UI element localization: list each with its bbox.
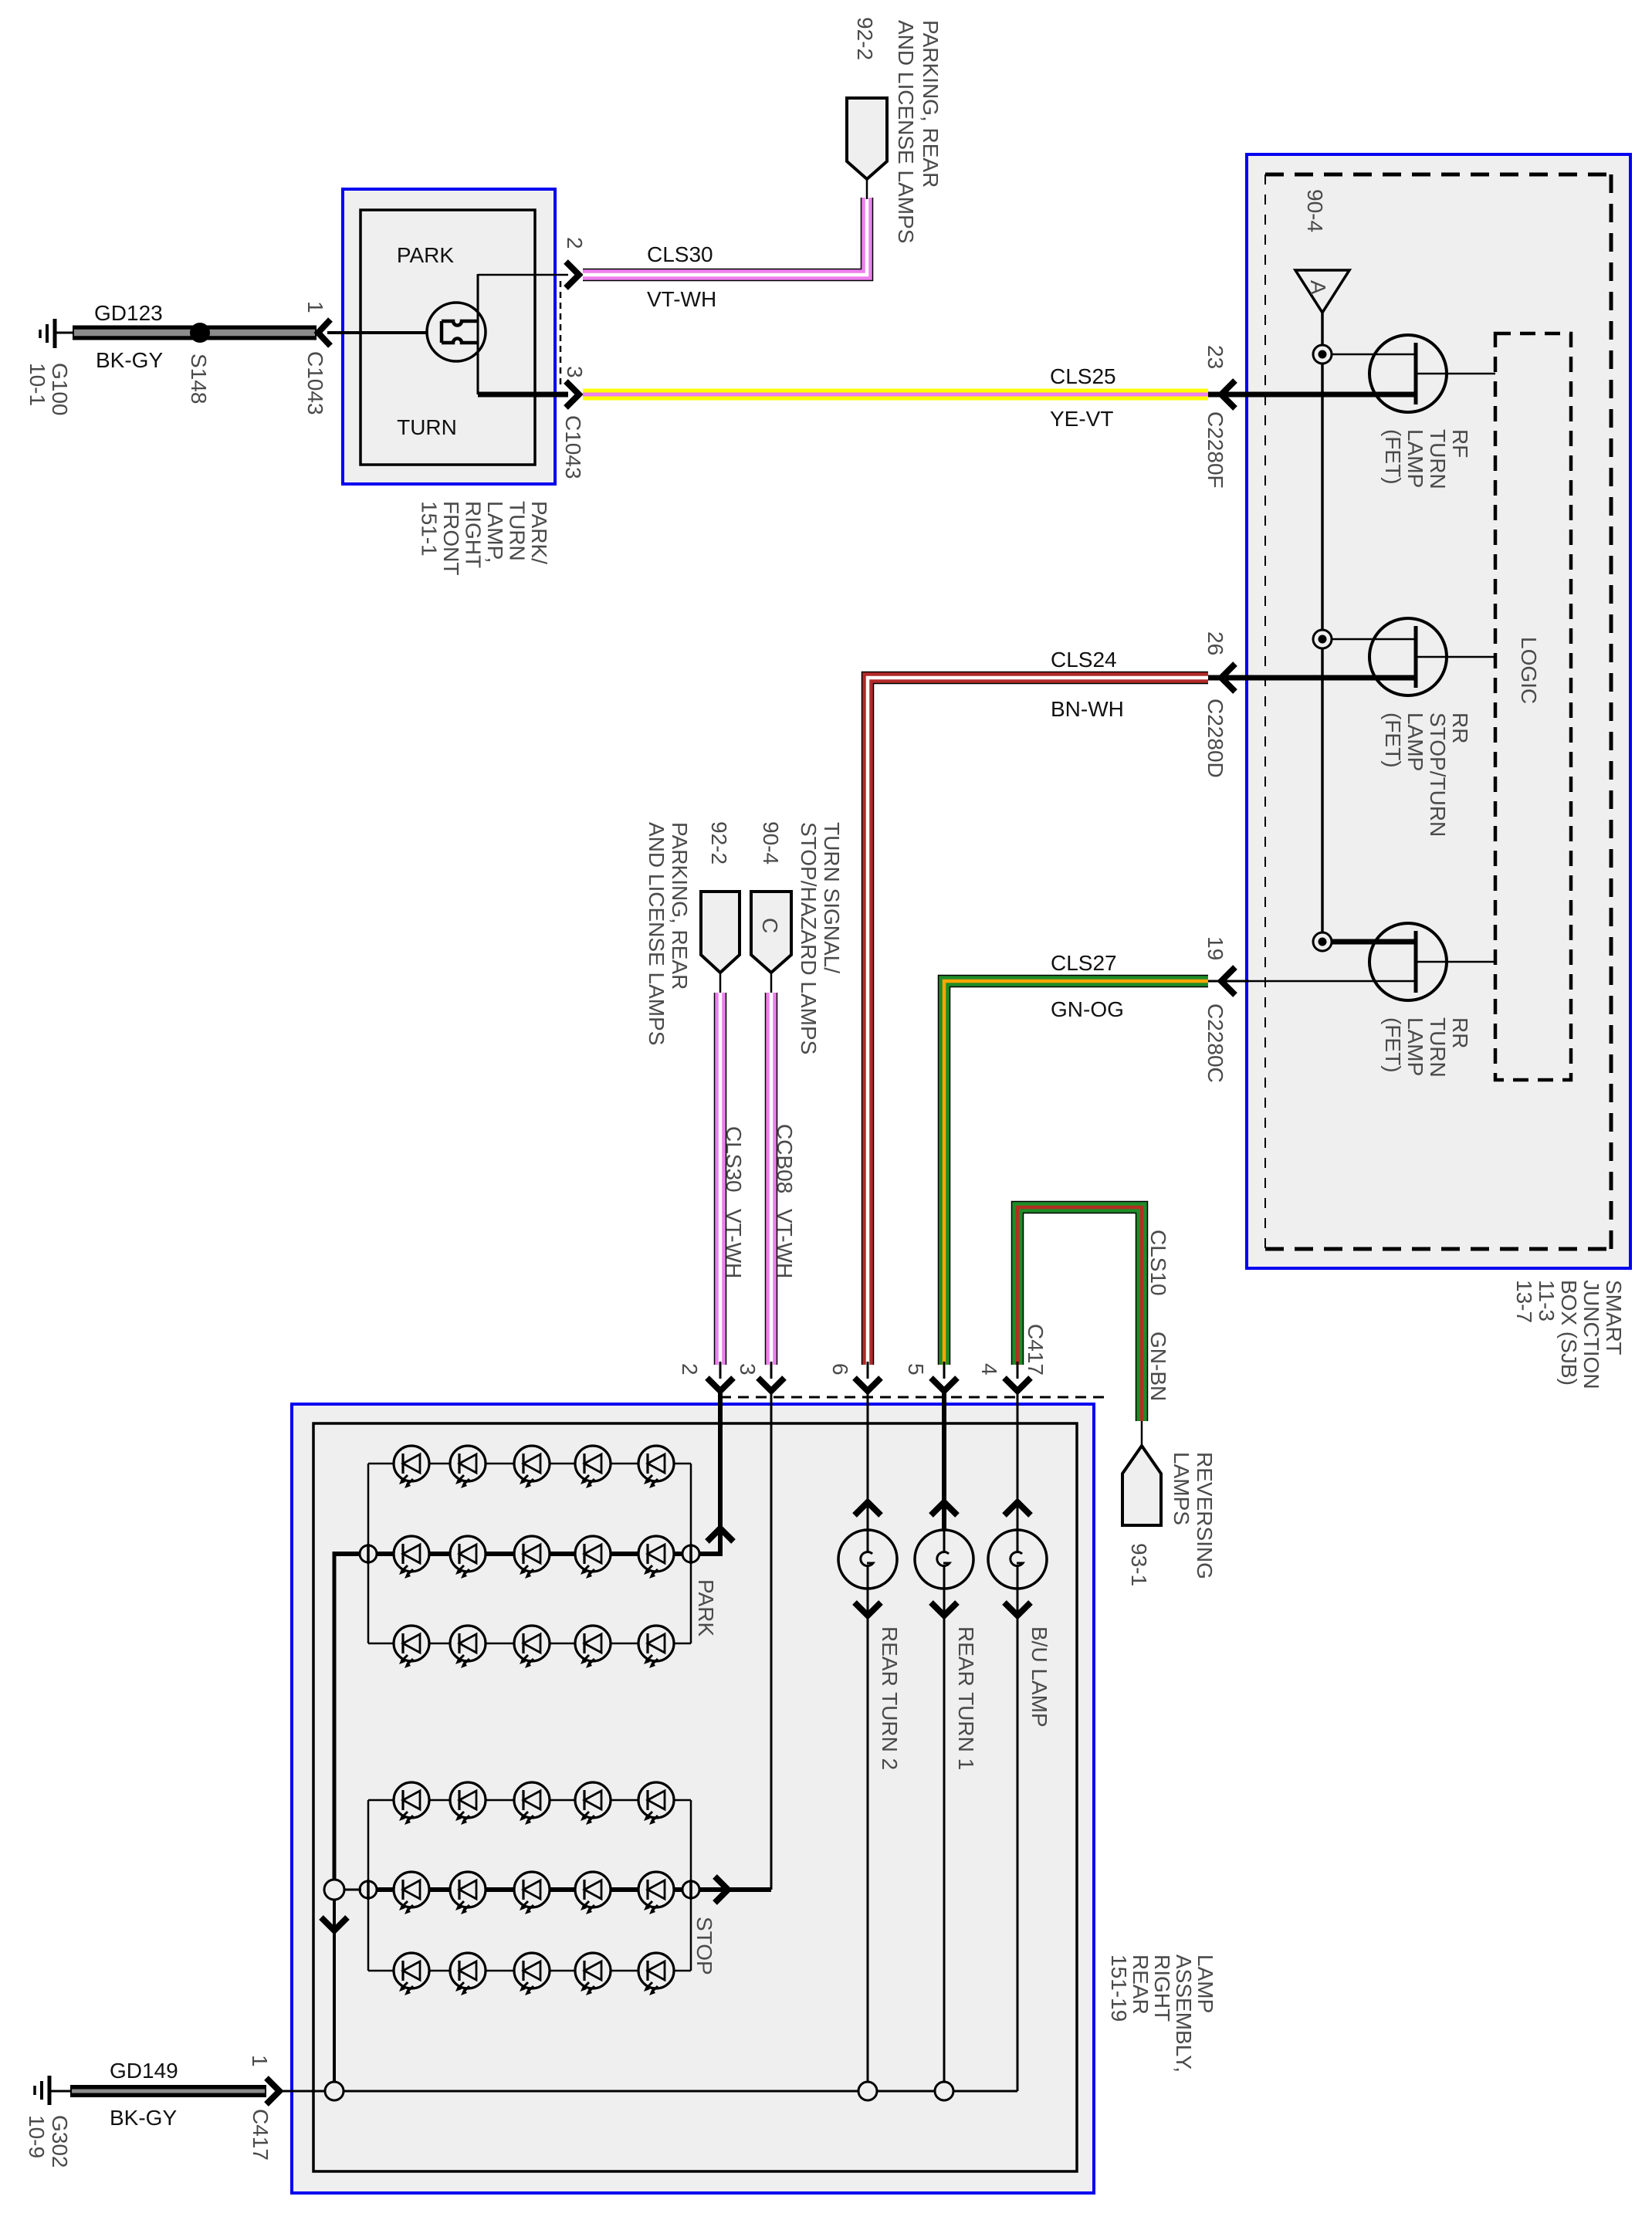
park/turn lamp right front - blue box bbox=[343, 189, 555, 484]
connector arrow pin 5 rear (C417) bbox=[931, 1378, 957, 1391]
node circle on left bus (STOP row) bbox=[324, 1880, 344, 1900]
wire bulb to ground REAR TURN 2 bbox=[867, 1587, 869, 2091]
wire bulb to pin 3 (thick) bbox=[478, 392, 568, 398]
PARK LED D22 bbox=[450, 1536, 486, 1579]
svg-text:C2280C: C2280C bbox=[1203, 1003, 1227, 1083]
wire stub pin 2 rear bbox=[719, 1362, 722, 1379]
wire CLS30 VT-WH (to pin 2 rear) bbox=[714, 993, 727, 1365]
svg-text:92-2: 92-2 bbox=[853, 17, 877, 60]
svg-text:CLS30: CLS30 bbox=[647, 242, 713, 266]
STOP terminal circle-plus left bbox=[360, 1880, 377, 1900]
svg-text:CLS30: CLS30 bbox=[722, 1126, 746, 1193]
FET 2 circle bbox=[1369, 618, 1447, 695]
PARK LED row 3 wire bbox=[368, 1643, 691, 1645]
STOP LED D23 bbox=[514, 1872, 550, 1914]
STOP LED D21 bbox=[394, 1872, 429, 1914]
wire pin to bulb REAR TURN 2 bbox=[867, 1392, 869, 1531]
svg-text:GN-OG: GN-OG bbox=[1051, 997, 1124, 1021]
svg-text:PARK/TURNLAMP,RIGHTFRONT151-1: PARK/TURNLAMP,RIGHTFRONT151-1 bbox=[418, 501, 552, 575]
PARK feed wire left corner bbox=[334, 1552, 360, 1882]
FET 1 channel bar bbox=[1414, 343, 1418, 404]
FET 1 gate wire from dot bbox=[1332, 354, 1416, 356]
svg-text:C2280F: C2280F bbox=[1203, 411, 1227, 489]
STOP LED D22 bbox=[450, 1872, 486, 1914]
FET 3 channel bar bbox=[1414, 931, 1418, 993]
wire CLS25 into SJB (black) bbox=[1208, 392, 1249, 398]
PARK LED array left bracket wire bbox=[367, 1464, 370, 1643]
PARK LED row 1 wire bbox=[368, 1463, 691, 1465]
svg-text:26: 26 bbox=[1203, 631, 1227, 655]
wire CLS24 BN-WH bbox=[868, 678, 1208, 1365]
STOP LED D12 bbox=[450, 1782, 486, 1825]
FET 3 circle bbox=[1369, 923, 1447, 1000]
svg-text:C1043: C1043 bbox=[303, 351, 327, 415]
junction dot 2 on bus bbox=[1313, 630, 1332, 648]
svg-text:VT-WH: VT-WH bbox=[722, 1209, 746, 1278]
connector arrow C1043 pin 1 bbox=[318, 320, 330, 346]
svg-text:CLS10: CLS10 bbox=[1146, 1230, 1170, 1296]
PARK LED D23 bbox=[514, 1536, 550, 1579]
SJB outer dashed border bottom bbox=[1265, 1247, 1611, 1251]
wire stub pin 4 rear bbox=[1017, 1362, 1019, 1379]
FET 3 drain wire to LOGIC bbox=[1416, 961, 1495, 963]
PARK LED D13 bbox=[514, 1446, 550, 1488]
svg-text:92-2: 92-2 bbox=[707, 821, 731, 865]
STOP feed right-arrow bbox=[715, 1877, 728, 1903]
svg-text:4: 4 bbox=[977, 1363, 1001, 1376]
svg-text:23: 23 bbox=[1203, 345, 1227, 369]
svg-text:SMARTJUNCTIONBOX (SJB)11-313-7: SMARTJUNCTIONBOX (SJB)11-313-7 bbox=[1512, 1280, 1626, 1389]
svg-text:5: 5 bbox=[904, 1363, 928, 1376]
STOP LED D24 bbox=[575, 1872, 611, 1914]
svg-text:YE-VT: YE-VT bbox=[1050, 407, 1113, 431]
connector arrow pin 2 rear (C417) bbox=[707, 1378, 733, 1391]
svg-text:CLS25: CLS25 bbox=[1050, 364, 1116, 388]
PARK LED D25 bbox=[638, 1536, 674, 1579]
PARK LED D11 bbox=[394, 1446, 429, 1488]
svg-text:C: C bbox=[758, 918, 782, 933]
svg-text:G30210-9: G30210-9 bbox=[25, 2115, 72, 2168]
STOP feed wire right to pin3 bbox=[699, 1887, 771, 1892]
svg-text:REVERSINGLAMPS: REVERSINGLAMPS bbox=[1170, 1452, 1217, 1579]
svg-text:VT-WH: VT-WH bbox=[647, 287, 716, 311]
PARK LED D15 bbox=[638, 1446, 674, 1488]
connector arrow C2280F pin 23 bbox=[1221, 381, 1235, 408]
STOP LED D11 bbox=[394, 1782, 429, 1825]
LOGIC dashed box bbox=[1495, 333, 1571, 1080]
FET 3 gate wire from dot bbox=[1332, 939, 1416, 945]
svg-text:C417: C417 bbox=[249, 2109, 273, 2161]
wire CCB08 VT-WH (to pin 3 rear) bbox=[765, 993, 778, 1365]
left bus wire below node bbox=[333, 1900, 336, 2082]
PARK LED row 2 wire (thick) bbox=[368, 1552, 691, 1556]
svg-text:CCB08: CCB08 bbox=[773, 1124, 797, 1193]
svg-text:6: 6 bbox=[828, 1363, 852, 1376]
svg-text:VT-WH: VT-WH bbox=[773, 1209, 797, 1278]
wire stub pin 6 rear bbox=[867, 1362, 869, 1379]
FET 1 drain wire to LOGIC bbox=[1416, 373, 1495, 375]
connector pentagon reversing lamps bbox=[1122, 1446, 1161, 1525]
connector arrow C417 pin 1 bbox=[266, 2078, 279, 2104]
bulb up-arrow B/U LAMP bbox=[1004, 1502, 1031, 1515]
STOP LED row 1 wire bbox=[368, 1799, 691, 1802]
PARK terminal circle-plus left bbox=[360, 1544, 377, 1564]
PARK LED D35 bbox=[638, 1626, 674, 1668]
FET1 source wire (pin 23) bbox=[1227, 392, 1416, 398]
wire stub to pentagon 92-2 bbox=[866, 178, 868, 199]
svg-text:2: 2 bbox=[563, 237, 587, 249]
FET3 source wire (pin 19) bbox=[1227, 980, 1416, 983]
SJB outer dashed border top bbox=[1265, 173, 1611, 177]
ground bus wire (lamp assembly) bbox=[278, 2090, 1017, 2093]
svg-text:GD123: GD123 bbox=[94, 301, 163, 325]
svg-text:CLS27: CLS27 bbox=[1051, 951, 1117, 975]
ground node circle (left bus) bbox=[325, 2082, 344, 2100]
svg-text:S148: S148 bbox=[187, 354, 211, 404]
bulb up-arrow REAR TURN 1 bbox=[931, 1502, 957, 1515]
svg-text:BK-GY: BK-GY bbox=[110, 2106, 177, 2130]
STOP LED array left bracket wire bbox=[367, 1800, 370, 1971]
STOP LED D34 bbox=[575, 1953, 611, 1995]
wire GD149 BK-GY bbox=[70, 2085, 266, 2097]
wire pin to bulb B/U LAMP bbox=[1017, 1392, 1019, 1531]
svg-text:BN-WH: BN-WH bbox=[1051, 697, 1124, 721]
FET 2 drain wire to LOGIC bbox=[1416, 656, 1495, 658]
STOP LED D14 bbox=[575, 1782, 611, 1825]
svg-text:BK-GY: BK-GY bbox=[96, 348, 163, 372]
svg-text:TURN: TURN bbox=[397, 415, 457, 439]
wire pin3 vertical (CCB08 feed) bbox=[770, 1392, 773, 1890]
park/turn lamp inner box bbox=[361, 210, 535, 465]
STOP terminal circle-plus right bbox=[682, 1880, 699, 1900]
svg-text:CLS24: CLS24 bbox=[1051, 648, 1117, 672]
splice S148 bbox=[190, 323, 210, 343]
bulb REAR TURN 2 bbox=[838, 1530, 897, 1589]
STOP LED row 3 wire bbox=[368, 1970, 691, 1972]
wire node to STOP terminal bbox=[344, 1889, 361, 1891]
wire CLS24 into SJB (black) bbox=[1208, 675, 1249, 681]
wire bulb to ground REAR TURN 1 bbox=[943, 1587, 946, 2091]
bulb B/U LAMP bbox=[988, 1530, 1047, 1589]
connector arrow pin 3 rear (C417) bbox=[758, 1378, 784, 1391]
svg-text:1: 1 bbox=[248, 2055, 272, 2067]
wire stub to reversing lamps pentagon bbox=[1141, 1421, 1143, 1447]
triangle A connector bbox=[1295, 270, 1349, 313]
STOP LED array right bracket wire bbox=[690, 1800, 692, 1971]
connector arrow pin 2 bbox=[566, 262, 579, 288]
STOP LED D32 bbox=[450, 1953, 486, 1995]
STOP LED D15 bbox=[638, 1782, 674, 1825]
svg-text:LOGIC: LOGIC bbox=[1517, 637, 1541, 704]
FET2 source wire (pin 26) bbox=[1227, 675, 1416, 681]
PARK LED D14 bbox=[575, 1446, 611, 1488]
wire CLS30 VT-WH (front) bbox=[583, 198, 867, 275]
junction dot 1 on bus bbox=[1313, 345, 1332, 364]
wire bulb to ground B/U LAMP bbox=[1017, 1587, 1019, 2091]
svg-text:C1043: C1043 bbox=[561, 415, 585, 479]
STOP LED D25 bbox=[638, 1872, 674, 1914]
wire pin1 to bulb bbox=[327, 331, 440, 334]
svg-text:19: 19 bbox=[1203, 936, 1227, 960]
connector pentagon 92-2 (parking rear and license lamps) bbox=[847, 98, 887, 179]
PARK LED array right bracket wire bbox=[690, 1464, 692, 1643]
PARK LED D21 bbox=[394, 1536, 429, 1579]
svg-text:C2280D: C2280D bbox=[1203, 699, 1227, 778]
connector pentagon 90-4 C (mid) bbox=[751, 892, 791, 973]
SJB outer dashed border left (thin) bbox=[1264, 174, 1266, 1249]
svg-text:GD149: GD149 bbox=[110, 2059, 178, 2083]
svg-text:LAMPASSEMBLY,RIGHTREAR151-19: LAMPASSEMBLY,RIGHTREAR151-19 bbox=[1107, 1954, 1217, 2073]
connector C417 dashed line bbox=[720, 1396, 1104, 1399]
svg-text:TURN SIGNAL/STOP/HAZARD LAMPS: TURN SIGNAL/STOP/HAZARD LAMPS bbox=[797, 822, 844, 1054]
svg-text:PARKING, REARAND LICENSE LAMPS: PARKING, REARAND LICENSE LAMPS bbox=[645, 822, 692, 1045]
STOP LED D13 bbox=[514, 1782, 550, 1825]
bulb internal bus wire bbox=[477, 274, 479, 394]
junction dot 3 on bus bbox=[1313, 932, 1332, 951]
connector C1043 dashed line bbox=[560, 281, 562, 386]
bulb down-arrow REAR TURN 1 bbox=[931, 1602, 957, 1616]
svg-text:PARK: PARK bbox=[397, 243, 454, 267]
ground node circle (rear turn 1) bbox=[935, 2082, 953, 2100]
FET 2 channel bar bbox=[1414, 626, 1418, 688]
STOP LED row 2 wire (thick) bbox=[368, 1887, 691, 1892]
svg-text:C417: C417 bbox=[1024, 1324, 1048, 1376]
SJB internal vertical bus wire bbox=[1321, 313, 1324, 942]
lamp assembly inner box bbox=[313, 1423, 1077, 2171]
svg-text:B/U LAMP: B/U LAMP bbox=[1027, 1626, 1051, 1728]
svg-text:90-4: 90-4 bbox=[1303, 189, 1327, 232]
svg-text:PARKING, REARAND LICENSE LAMPS: PARKING, REARAND LICENSE LAMPS bbox=[894, 20, 943, 243]
STOP LED D35 bbox=[638, 1953, 674, 1995]
connector arrow pin 3 bbox=[566, 381, 579, 408]
svg-text:STOP: STOP bbox=[692, 1917, 716, 1975]
wire CLS10 GN-BN bbox=[1017, 1207, 1142, 1421]
PARK LED D33 bbox=[514, 1626, 550, 1668]
PARK LED D31 bbox=[394, 1626, 429, 1668]
wire CLS25 YE-VT bbox=[583, 389, 1208, 401]
PARK LED D34 bbox=[575, 1626, 611, 1668]
svg-text:G10010-1: G10010-1 bbox=[25, 363, 72, 416]
FET 2 gate wire from dot bbox=[1332, 638, 1416, 641]
svg-text:2: 2 bbox=[678, 1363, 702, 1376]
bulb REAR TURN 1 bbox=[915, 1530, 973, 1589]
wire pin to bulb REAR TURN 1 bbox=[942, 1392, 946, 1531]
wire GD123 BK-GY (ground wire) bbox=[73, 326, 317, 340]
STOP LED D33 bbox=[514, 1953, 550, 1995]
ground node circle (rear turn 2) bbox=[858, 2082, 877, 2100]
left bus down-arrow bbox=[321, 1917, 347, 1931]
FET 1 circle bbox=[1369, 335, 1447, 412]
bulb down-arrow B/U LAMP bbox=[1004, 1602, 1031, 1616]
ground G100 symbol bbox=[40, 319, 74, 348]
connector arrow C2280C pin 19 bbox=[1221, 967, 1235, 995]
svg-text:GN-BN: GN-BN bbox=[1146, 1332, 1170, 1401]
svg-text:1: 1 bbox=[303, 301, 327, 313]
connector arrow pin 4 rear (C417) bbox=[1004, 1378, 1031, 1391]
wire bulb to pin 2 bbox=[478, 274, 568, 276]
svg-text:REAR TURN 1: REAR TURN 1 bbox=[954, 1626, 978, 1770]
connector pentagon 92-2 (mid) bbox=[701, 892, 740, 973]
lamp assembly right rear - blue box bbox=[292, 1404, 1094, 2193]
wire CLS27 into SJB (black) bbox=[1208, 980, 1249, 983]
svg-text:90-4: 90-4 bbox=[759, 821, 783, 865]
svg-text:PARK: PARK bbox=[694, 1579, 718, 1636]
bulb up-arrow REAR TURN 2 bbox=[855, 1502, 881, 1515]
SJB outer dashed border right bbox=[1610, 174, 1613, 1249]
PARK feed wire right to pin2 bbox=[699, 1392, 720, 1556]
PARK LED D32 bbox=[450, 1626, 486, 1668]
wire stub pentagon 90-4 (mid) bbox=[770, 971, 773, 994]
svg-text:A: A bbox=[1306, 280, 1330, 295]
PARK terminal circle-plus right bbox=[682, 1544, 699, 1564]
smart junction box (SJB) blue box bbox=[1247, 154, 1630, 1268]
PARK LED D24 bbox=[575, 1536, 611, 1579]
connector arrow pin 6 rear (C417) bbox=[855, 1378, 881, 1391]
connector arrow C2280D pin 26 bbox=[1221, 664, 1235, 692]
ground G302 symbol bbox=[35, 2076, 72, 2105]
PARK feed up-arrow bbox=[707, 1528, 733, 1541]
wire CLS27 GN-OG bbox=[944, 981, 1208, 1365]
wire stub pin 5 rear bbox=[943, 1362, 946, 1379]
svg-text:3: 3 bbox=[736, 1363, 760, 1376]
STOP LED D31 bbox=[394, 1953, 429, 1995]
bulb park/turn front lamp bbox=[427, 303, 486, 361]
wire stub pin 3 rear bbox=[770, 1362, 773, 1379]
svg-text:93-1: 93-1 bbox=[1127, 1543, 1151, 1586]
wire stub pentagon 92-2 (mid) bbox=[719, 971, 722, 994]
PARK LED D12 bbox=[450, 1446, 486, 1488]
svg-text:REAR TURN 2: REAR TURN 2 bbox=[878, 1626, 902, 1770]
bulb down-arrow REAR TURN 2 bbox=[855, 1602, 881, 1616]
svg-text:3: 3 bbox=[563, 366, 587, 378]
